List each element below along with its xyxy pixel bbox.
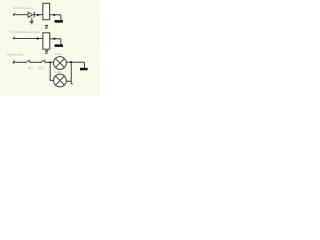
wire down to ground bar 3 [83, 62, 85, 68]
wire mixer2 output [66, 80, 71, 82]
ground bar mixer1 [80, 68, 88, 71]
wire switch1 to switch2 [30, 61, 41, 63]
background grid paper [0, 0, 100, 96]
switch S1 [25, 60, 29, 63]
svg-text:L.02: L.02 [55, 70, 61, 74]
svg-text:L.o.F: L.o.F [55, 52, 61, 56]
node dot row1 [37, 14, 39, 16]
wire mixer1 output [66, 61, 84, 63]
wire port1 to diode [14, 14, 28, 16]
branch wire down to mixer2 [50, 63, 54, 80]
node dot row3 [49, 61, 51, 63]
wire port2 to node [14, 38, 43, 40]
svg-text:CV-Modulation-Input: CV-Modulation-Input [10, 30, 40, 34]
node dot row2 out [53, 38, 55, 40]
node dot row2 [37, 37, 39, 39]
ground under diode [30, 17, 34, 23]
svg-text:RF 1: RF 1 [28, 66, 34, 70]
filter block Z2 [43, 33, 50, 49]
wire switch2 to mixer1 [45, 61, 54, 63]
ground bar row1 [55, 20, 63, 23]
wire down row2 [60, 39, 62, 45]
filter block Z1 [43, 3, 50, 19]
mixer U1 [54, 57, 67, 70]
wire diode to node [35, 14, 43, 16]
wire Z1 to ground bar [50, 14, 61, 16]
wire Z2 to ground bar [50, 38, 61, 40]
svg-text:CV-Voltage-In: CV-Voltage-In [13, 6, 34, 10]
diode D1 [28, 12, 34, 17]
branch wire down from mixer1 out node [71, 63, 73, 83]
port P2 (input connector) [13, 37, 15, 40]
svg-text:T-Sense-Input: T-Sense-Input [6, 52, 24, 56]
mixer U2 [54, 74, 67, 87]
port P1 (input connector) [13, 13, 15, 15]
wire down row1 [60, 15, 62, 20]
label under Z1 [45, 25, 48, 29]
port P3 (input connector) [13, 60, 15, 64]
node dot row1 out [53, 14, 55, 16]
wire port3 to switch1 [14, 61, 26, 63]
ground bar row2 [55, 44, 63, 47]
node dot mixer1 out [70, 61, 72, 63]
switch S2 [40, 60, 44, 63]
label under Z2 [45, 50, 48, 54]
svg-text:RF 2: RF 2 [38, 66, 44, 70]
